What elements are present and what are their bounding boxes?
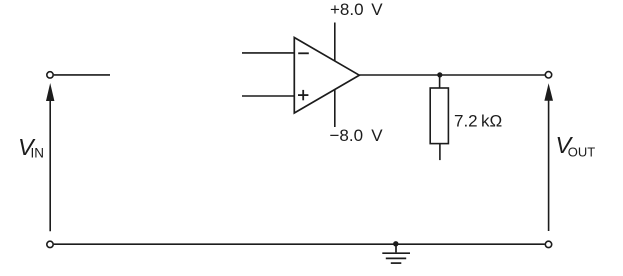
ground	[382, 244, 410, 263]
VIN arrow	[46, 83, 54, 101]
positive supply wire	[334, 23, 336, 62]
wire left vertical	[49, 97, 51, 231]
bottom wire	[54, 243, 545, 245]
svg-text:IN: IN	[31, 145, 45, 160]
op-amp plus symbol	[298, 90, 308, 100]
op-amp U1	[294, 38, 359, 114]
resistor 7.2 kOhm	[430, 88, 448, 144]
svg-text:V: V	[371, 0, 383, 19]
svg-text:V: V	[371, 126, 383, 145]
input terminal (bottom left)	[47, 241, 53, 247]
input terminal (top left)	[47, 72, 53, 78]
wire from input terminal	[54, 74, 110, 76]
wire non-inverting input	[242, 95, 294, 97]
svg-text:+8.0: +8.0	[330, 0, 364, 19]
wire inverting input	[242, 52, 294, 54]
svg-text:−8.0: −8.0	[330, 126, 364, 145]
wire resistor top lead	[439, 75, 441, 88]
wire right vertical	[548, 97, 550, 231]
svg-text:7.2 kΩ: 7.2 kΩ	[454, 111, 502, 130]
op-amp minus symbol	[298, 52, 309, 54]
output terminal (bottom right)	[545, 241, 551, 247]
wire output	[359, 74, 545, 76]
negative supply wire	[334, 89, 336, 127]
wire resistor bottom lead	[439, 144, 441, 160]
VOUT arrow	[544, 83, 553, 101]
output junction node	[437, 72, 442, 77]
output terminal (top right)	[545, 72, 551, 78]
svg-text:OUT: OUT	[568, 145, 596, 160]
ground junction dot	[393, 241, 398, 246]
